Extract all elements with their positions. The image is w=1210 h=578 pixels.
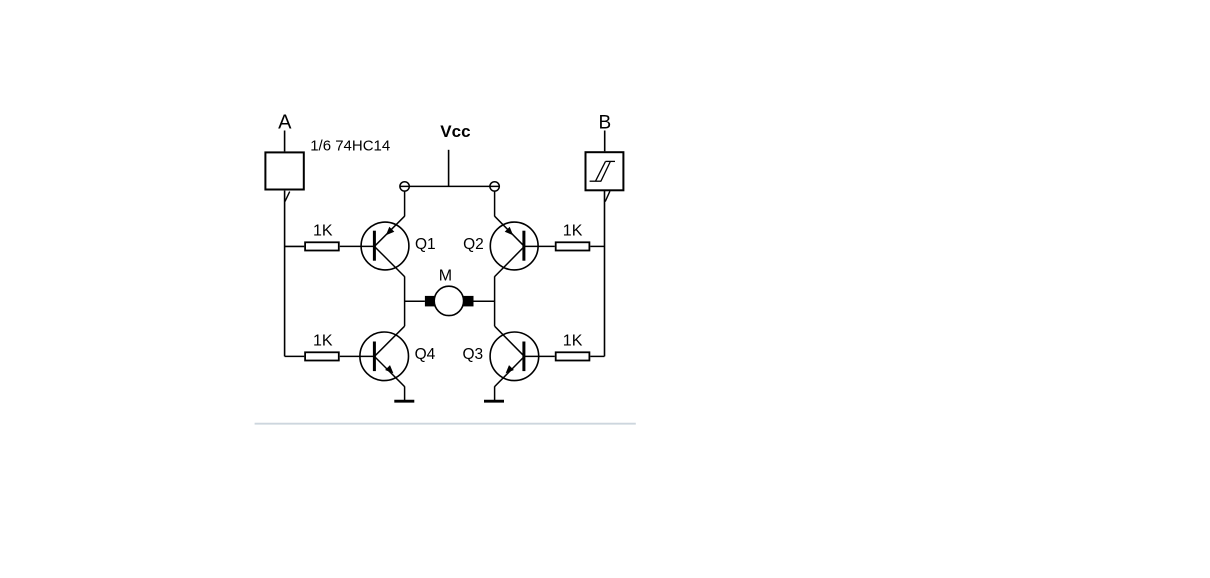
- wire R4 to net B bus: [590, 355, 604, 357]
- svg-text:Q4: Q4: [415, 346, 436, 363]
- wire B to schmitt box: [604, 131, 606, 152]
- wire motor to right node: [474, 300, 495, 302]
- svg-text:A: A: [278, 112, 292, 134]
- transistor Q1 (PNP): [361, 216, 409, 276]
- svg-text:1K: 1K: [563, 223, 583, 240]
- wire bus to R1: [285, 245, 305, 247]
- svg-text:Q3: Q3: [463, 346, 484, 363]
- inverter U1 box (1/6 74HC14): [265, 152, 303, 201]
- svg-text:1K: 1K: [313, 223, 333, 240]
- svg-text:M: M: [439, 267, 452, 284]
- transistor Q2 (PNP): [490, 216, 538, 276]
- separator rule: [255, 423, 636, 425]
- wire Vcc stem: [448, 150, 450, 187]
- wire Q2 emitter to Vcc rail: [494, 191, 496, 216]
- wire Q2 collector to Q3 collector (right motor node): [494, 276, 496, 326]
- svg-text:B: B: [599, 112, 612, 133]
- transistor Q4 (NPN): [360, 326, 409, 386]
- wire Q3 emitter to ground: [494, 386, 496, 400]
- resistor R2 1K: [556, 242, 590, 250]
- motor M: [425, 286, 474, 315]
- svg-text:1K: 1K: [563, 333, 583, 350]
- wire Q2 base to R2: [524, 245, 555, 247]
- transistor Q3 (NPN): [490, 326, 539, 386]
- svg-text:1/6 74HC14: 1/6 74HC14: [310, 137, 390, 154]
- wire: net A vertical bus: [284, 191, 286, 357]
- wire Q4 emitter to ground: [404, 386, 406, 400]
- svg-text:Q1: Q1: [415, 236, 436, 253]
- wire Q3 base to R4: [524, 355, 555, 357]
- wire A to inverter input: [284, 131, 286, 152]
- wire Vcc rail: [400, 185, 499, 187]
- wire Q1 emitter to Vcc rail: [404, 191, 406, 216]
- wire: net B vertical bus: [604, 191, 606, 357]
- wire R3 to Q4 base: [340, 355, 375, 357]
- resistor R3 1K: [305, 352, 339, 360]
- resistor R1 1K: [305, 242, 339, 250]
- rail terminal circle left: [400, 182, 409, 191]
- resistor R4 1K: [556, 352, 590, 360]
- schmitt trigger U2 box: [586, 152, 624, 201]
- wire R1 to Q1 base: [340, 245, 375, 247]
- svg-text:Q2: Q2: [463, 236, 484, 253]
- wire Q1 collector to Q4 collector (left motor node): [404, 276, 406, 326]
- ground (Q4): [394, 400, 414, 403]
- wire left node to motor: [405, 300, 425, 302]
- rail terminal circle right: [490, 182, 499, 191]
- wire R2 to net B bus: [590, 245, 604, 247]
- ground (Q3): [484, 400, 504, 403]
- svg-text:Vcc: Vcc: [440, 122, 470, 141]
- wire bus to R3: [285, 355, 305, 357]
- svg-text:1K: 1K: [313, 333, 333, 350]
